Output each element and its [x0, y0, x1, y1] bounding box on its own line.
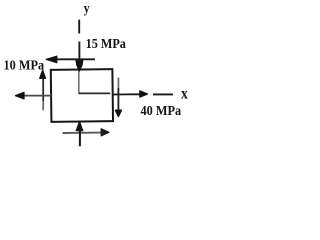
svg-text:y: y — [84, 1, 90, 16]
bottom normal stress arrow (up) — [76, 122, 82, 131]
svg-text:15 MPa: 15 MPa — [86, 37, 126, 52]
y-axis interior segment (inside square) — [78, 70, 80, 94]
bottom face shear arrow (right) — [63, 132, 101, 134]
stress element square — [51, 69, 113, 122]
left face normal stress arrow (left) — [24, 95, 51, 97]
y-axis upper segment — [78, 20, 80, 34]
svg-text:10 MPa: 10 MPa — [4, 58, 45, 73]
40 MPa right normal stress arrow (right) — [113, 93, 140, 95]
svg-text:40 MPa: 40 MPa — [141, 104, 182, 119]
15 MPa top normal stress arrow (down) — [78, 42, 80, 62]
x-axis dash after arrow — [153, 93, 173, 95]
x-axis interior segment (inside square) — [79, 92, 110, 94]
svg-text:x: x — [181, 86, 188, 103]
right face shear arrow (down) — [117, 78, 119, 88]
left face shear arrow (up) — [40, 70, 46, 78]
top face shear arrow (left) — [53, 58, 95, 60]
